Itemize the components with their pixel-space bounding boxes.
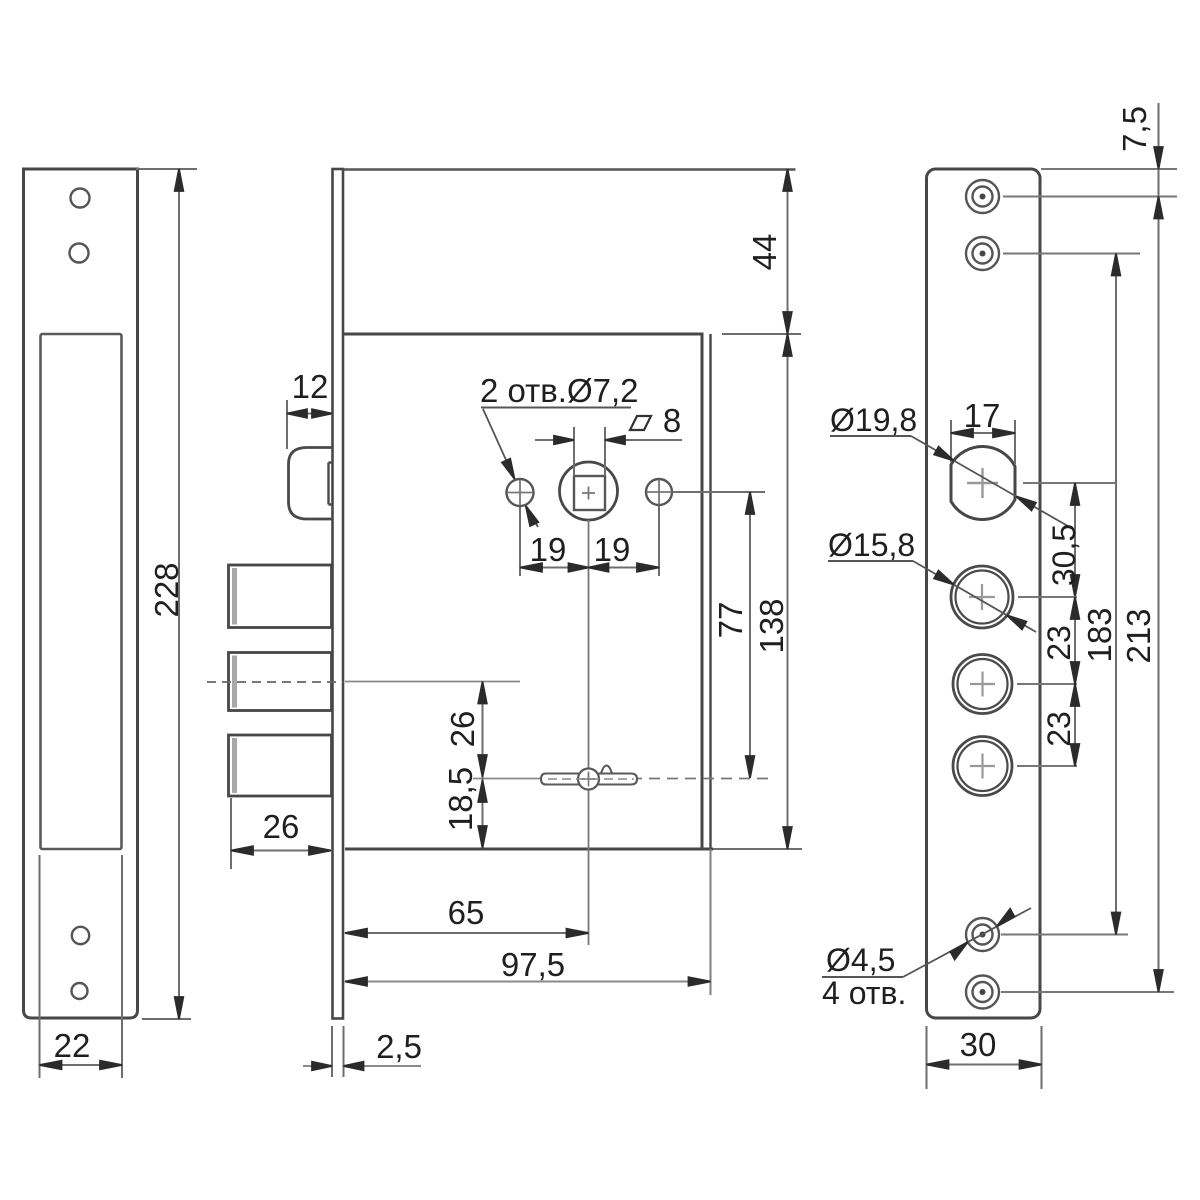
dimension 97.5: dimension line	[345, 981, 711, 983]
leader 2 otv 7,2: arrowheads	[502, 459, 538, 526]
latch bolt face line	[329, 463, 333, 505]
latch bolt outline	[289, 448, 333, 520]
svg-text:213: 213	[1120, 608, 1157, 663]
reference line hole3 center	[1017, 683, 1077, 685]
dimension 19-19: arrowheads	[520, 563, 659, 572]
dimension 213: bottom arrowhead	[1154, 970, 1163, 992]
hole 3	[953, 655, 1012, 714]
deadbolt axis dashed centerline	[207, 681, 343, 683]
svg-text:26: 26	[444, 711, 481, 748]
reference line screw2 center	[1003, 253, 1140, 255]
dimension 26/18.5 vertical: dimension line	[482, 682, 484, 849]
dimension 77: dimension line	[749, 492, 751, 778]
svg-text:19: 19	[530, 531, 567, 568]
dimension 8: extension lines	[574, 427, 605, 476]
svg-text:Ø19,8: Ø19,8	[830, 402, 917, 438]
dimension 26 horizontal: arrowheads	[231, 846, 331, 855]
hole 4	[953, 737, 1012, 796]
svg-text:4 отв.: 4 отв.	[822, 975, 906, 1011]
right screw hole 3	[966, 918, 999, 951]
left view: recessed slot	[41, 334, 122, 849]
svg-text:30,5: 30,5	[1046, 524, 1082, 586]
svg-text:2,5: 2,5	[376, 1028, 422, 1065]
dimension 8: dimension line	[535, 439, 682, 441]
svg-text:44: 44	[746, 234, 783, 271]
middle view: right extension line below body	[710, 849, 712, 995]
dimension 12: extension line	[286, 400, 288, 449]
right view: strike plate outline	[927, 169, 1041, 1018]
leader 2 otv 7,2: leader line segments	[483, 409, 538, 527]
hole 15.8	[951, 566, 1013, 628]
dimension 228: arrowheads	[175, 169, 184, 1019]
left view: screw hole bottom 2	[72, 983, 88, 999]
svg-text:65: 65	[448, 894, 485, 931]
square symbol	[630, 416, 651, 430]
svg-text:30: 30	[960, 1026, 997, 1063]
left view: screw hole top 1	[71, 189, 90, 208]
right screw hole 4	[966, 976, 999, 1009]
leader 4.5: arrowheads	[950, 909, 1014, 960]
middle view: lock body right inner line	[709, 334, 711, 849]
middle view: top edge line	[343, 168, 796, 171]
dimension 138: extension segment at body bottom	[713, 848, 802, 850]
dimension 7.5/213: dimension line	[1158, 103, 1160, 992]
dimension 18.5: arrowheads	[478, 780, 487, 848]
right screw hole 2	[966, 237, 999, 270]
dimension 65: dimension line	[345, 932, 589, 934]
leader 15.8: arrowheads	[934, 571, 1026, 630]
dimension 30.5/23/23 chain line	[1074, 483, 1076, 766]
leader 19.8: underline	[830, 435, 911, 437]
deadbolt 3	[229, 735, 332, 796]
svg-text:Ø15,8: Ø15,8	[828, 527, 915, 563]
spindle circle	[560, 462, 618, 520]
hole left (7.2)	[507, 479, 534, 506]
keyhole slot	[541, 774, 637, 785]
svg-text:2 отв.Ø7,2: 2 отв.Ø7,2	[480, 372, 639, 409]
hole 15.8 center cross	[969, 584, 995, 610]
deadbolt axis solid reference line	[345, 681, 520, 683]
dimension 30: dimension line	[927, 1064, 1042, 1066]
dimension 12: dimension line	[287, 413, 332, 415]
leader 19.8: diagonal line	[911, 436, 1073, 529]
dimension 30.5: arrowheads	[1071, 483, 1080, 597]
keyhole top notch	[601, 766, 612, 774]
svg-text:228: 228	[148, 562, 185, 617]
svg-text:18,5: 18,5	[442, 767, 479, 831]
dimension 22: extension lines	[40, 855, 123, 1078]
svg-text:12: 12	[292, 368, 329, 405]
svg-text:26: 26	[263, 808, 300, 845]
svg-text:7,5: 7,5	[1116, 106, 1153, 152]
dimension 183: dimension line	[1115, 254, 1117, 935]
svg-text:97,5: 97,5	[501, 946, 565, 983]
leader 19.8: arrowheads	[934, 447, 1036, 511]
reference line screw1 center	[1003, 196, 1177, 198]
dimension 228: extension lines	[136, 169, 197, 1019]
cylinder hole 19.8 center cross	[967, 468, 998, 498]
keyhole circle	[578, 769, 599, 790]
svg-text:17: 17	[964, 397, 1001, 434]
dimension 183: arrowheads	[1112, 254, 1121, 935]
dimension 30: extension lines	[927, 1026, 1042, 1089]
svg-text:23: 23	[1041, 711, 1077, 747]
dimension 17: arrowheads	[951, 429, 1015, 438]
dimension 44: arrowheads	[783, 169, 792, 334]
left view: screw hole top 2	[70, 244, 89, 263]
dimension 77: arrowheads	[746, 492, 755, 778]
dimension 26 vertical: arrowheads	[478, 682, 487, 778]
dimension 77: extension line at circle level	[672, 491, 765, 493]
svg-text:183: 183	[1081, 607, 1118, 662]
cylinder hole 19.8 with flats	[951, 447, 1015, 520]
svg-text:8: 8	[663, 402, 681, 439]
leader 4.5: underline	[822, 976, 903, 978]
dimension 12: arrowheads	[287, 409, 332, 418]
leader 15.8: underline	[828, 560, 913, 562]
dimension 44: extension segment at body top	[722, 333, 801, 335]
keyhole dashed centerline	[541, 778, 770, 780]
dimension 2.5: arrowheads	[312, 1062, 364, 1071]
left view: faceplate front outline	[24, 169, 138, 1018]
dimension 23 upper: arrowheads	[1071, 597, 1080, 684]
right screw hole 1	[966, 180, 999, 213]
dimension 26 horizontal: dimension line	[231, 850, 331, 852]
dimension 7.5: arrowheads	[1154, 147, 1163, 219]
leader 2 otv 7,2: underline	[481, 407, 631, 409]
dimension 8: arrowheads	[554, 436, 625, 445]
deadbolt 1	[229, 565, 332, 628]
reference line screw4 center	[1001, 991, 1174, 993]
leader 15.8: diagonal line	[913, 561, 1036, 632]
svg-text:19: 19	[594, 531, 631, 568]
dimension 97.5: arrowheads	[345, 977, 711, 986]
dimension 30: arrowheads	[927, 1060, 1042, 1069]
keyhole reference line left	[473, 778, 540, 780]
dimension 138: arrowheads	[783, 334, 792, 849]
reference line screw3 center	[1001, 934, 1128, 936]
dimension 17: dimension line	[951, 432, 1015, 434]
dimension 19-19: extension lines	[520, 506, 659, 576]
dimension 17: extension lines	[951, 420, 1015, 464]
reference line 19.8 center	[1023, 482, 1115, 484]
svg-text:22: 22	[54, 1027, 91, 1064]
left view: screw hole bottom 1	[72, 927, 89, 944]
dimension 19-19: dimension line	[520, 567, 659, 569]
svg-text:23: 23	[1041, 625, 1077, 661]
hole right (7.2)	[646, 479, 672, 505]
svg-text:138: 138	[753, 598, 790, 653]
svg-text:77: 77	[712, 602, 749, 639]
dimension 22: dimension line	[40, 1064, 123, 1066]
center axis vertical line	[588, 520, 590, 945]
spindle square 8mm	[574, 476, 605, 510]
reference line hole4 center	[1017, 765, 1077, 767]
dimension 44/138: dimension line	[787, 169, 789, 849]
keyhole center cross	[548, 772, 634, 787]
dimension 228: dimension line	[178, 169, 180, 1019]
reference line 15.8 center	[1018, 596, 1077, 598]
middle view: lock body outline	[343, 334, 713, 849]
svg-text:Ø4,5: Ø4,5	[826, 942, 895, 978]
dimension 23 lower: arrowheads	[1071, 684, 1080, 766]
middle view: faceplate edge strip	[333, 169, 344, 1019]
dimension 65: arrowheads	[345, 929, 589, 938]
reference line plate top	[1041, 168, 1177, 170]
dimension 2.5: dimension line	[303, 1065, 421, 1067]
dimension 26 horizontal (bolt throw): extension line	[230, 798, 232, 869]
dimension 22: arrowheads	[40, 1061, 123, 1070]
dimension 2.5: extension lines	[332, 1026, 344, 1077]
leader 4.5: diagonal line	[903, 908, 1031, 977]
deadbolt 2	[229, 653, 332, 711]
